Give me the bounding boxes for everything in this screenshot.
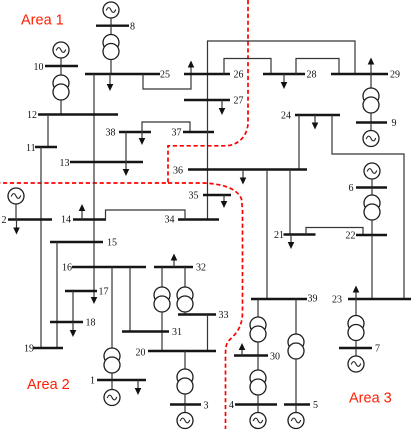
bus 25 [85, 73, 160, 75]
svg-text:Area 1: Area 1 [21, 13, 64, 29]
bus 30 [234, 354, 268, 356]
bus 34 [178, 218, 219, 220]
wire bus 24 to bus 36 [298, 115, 300, 170]
svg-text:7: 7 [375, 344, 380, 355]
wire T1 to bus 1 [111, 373, 113, 380]
wire bus 20 to transformer T3 [184, 351, 186, 369]
load arrow on bus 24 [312, 115, 319, 130]
svg-text:34: 34 [165, 215, 175, 226]
svg-text:33: 33 [219, 310, 229, 321]
svg-text:38: 38 [106, 128, 116, 139]
bus 2 [8, 218, 52, 220]
wire T30 to bus 30 [257, 342, 259, 356]
svg-text:23: 23 [332, 295, 342, 306]
wire bus 11 down to bus 19 [40, 147, 42, 348]
load arrow on bus 28 [281, 74, 288, 89]
generator G1 [104, 390, 120, 406]
svg-text:16: 16 [62, 263, 72, 274]
wire bus 22 to bus 23 [371, 235, 373, 299]
load arrow on bus 36 [240, 170, 247, 185]
transformer T7 [348, 316, 364, 341]
wire bus 36 to bus 21 [289, 170, 291, 235]
svg-text:17: 17 [99, 287, 109, 298]
wire bus 12 to bus 11 [47, 115, 49, 148]
generator G3 [177, 413, 193, 429]
svg-text:13: 13 [60, 158, 70, 169]
svg-text:9: 9 [392, 118, 397, 129]
svg-text:22: 22 [346, 231, 356, 242]
wire bus 28 to bus 29 bracket [296, 59, 339, 75]
svg-text:25: 25 [160, 70, 170, 81]
svg-text:19: 19 [24, 344, 34, 355]
bus 10 [45, 65, 78, 67]
wire T9 to bus 9 [370, 113, 372, 123]
bus 17 [65, 290, 97, 292]
wire G2 to bus 2 [15, 204, 17, 220]
svg-text:Area 3: Area 3 [349, 391, 392, 407]
svg-text:24: 24 [281, 111, 291, 122]
svg-text:39: 39 [308, 294, 318, 305]
wire bus 5 to generator G5 [295, 405, 297, 413]
area boundary Area2/Area3 (red dashed) [168, 183, 243, 429]
svg-text:1: 1 [90, 376, 95, 387]
injection arrow on bus 30 [239, 343, 246, 356]
load arrow on bus 25 [107, 74, 114, 91]
load arrow on bus 27 [219, 100, 226, 115]
wire bus 26 to bus 28 bracket [224, 59, 271, 75]
bus 19 [33, 347, 63, 349]
svg-text:37: 37 [172, 128, 182, 139]
wire G10 to bus 10 [60, 58, 62, 66]
bus 13 [70, 161, 143, 163]
wire bus 32 to transformer T32a [161, 267, 163, 287]
wire G6 to bus 6 [371, 179, 373, 188]
bus 6 [356, 186, 387, 188]
wire bus 10 to transformer T10 [60, 66, 62, 75]
bus 36 [188, 168, 307, 170]
bus 18 [50, 321, 83, 323]
svg-text:6: 6 [349, 183, 354, 194]
bus 32 [154, 266, 193, 268]
svg-text:26: 26 [234, 70, 244, 81]
transformer T1 (bus 16 to bus 1) [104, 348, 120, 373]
wire bus 30 to transformer T4 [257, 356, 259, 371]
wire T32a down to bus 20 [161, 312, 163, 351]
svg-text:14: 14 [61, 215, 71, 226]
transformer T3 [177, 369, 193, 394]
tie line bus 25 to bus 26 with flow arrow [143, 61, 194, 90]
bus 4 [235, 403, 277, 405]
wire T8 to bus 25 [110, 60, 112, 75]
svg-text:Area 2: Area 2 [27, 377, 70, 393]
generator G4 [250, 413, 266, 429]
wire T3 to bus 3 [184, 394, 186, 405]
wire T32b to bus 33 [184, 312, 186, 315]
bus 27 [184, 99, 230, 101]
wire bus 36 to bus 39 [266, 170, 268, 300]
wire T10 to bus 12 [60, 100, 62, 115]
area boundary Area1/Area2 (red dashed) [0, 0, 248, 183]
wire bus 32 to transformer T32b [184, 267, 186, 287]
svg-text:2: 2 [2, 215, 7, 226]
wire T5 to bus 5 [295, 359, 297, 405]
wire bus 23 to transformer T7 [355, 299, 357, 316]
svg-text:4: 4 [229, 400, 234, 411]
bus 1 [97, 379, 146, 381]
transformer T8 [103, 35, 119, 60]
bus 15 [50, 241, 103, 243]
bus 12 [38, 113, 118, 115]
bus 38 [119, 131, 151, 133]
svg-text:3: 3 [204, 401, 209, 412]
wire bus 7 to generator G7 [355, 348, 357, 356]
bus 22 [356, 234, 387, 236]
bus 21 [284, 233, 316, 235]
bus 11 [35, 146, 57, 148]
transformer T6 [364, 195, 380, 220]
svg-text:15: 15 [107, 238, 117, 249]
svg-text:12: 12 [27, 110, 37, 121]
svg-text:10: 10 [34, 62, 44, 73]
svg-text:20: 20 [136, 348, 146, 359]
wire bus 16 to bus 31 [129, 267, 131, 332]
injection arrow on bus 23 [353, 286, 360, 300]
bus 28 [263, 73, 305, 75]
svg-text:32: 32 [196, 263, 206, 274]
bus 35 [203, 194, 231, 196]
generator G5 [288, 413, 304, 429]
wire bus 39 to transformer T5 [295, 299, 297, 334]
wire bus 4 to generator G4 [257, 405, 259, 413]
bus 3 [170, 403, 201, 405]
wire bus 17 to bus 18 [72, 291, 74, 322]
generator G6 [364, 163, 380, 179]
bus 29 [331, 73, 388, 75]
wire bus 29 to transformer T9 [370, 74, 372, 88]
wire bus 8 to transformer T8 [110, 26, 112, 35]
generator G10 [53, 42, 69, 58]
injection arrow on bus 32 [171, 254, 178, 268]
load arrow on bus 38 [139, 132, 146, 145]
load arrow on bus 2 [13, 220, 20, 235]
wire bus 16 to transformer T31a (to bus 1 chain) [111, 267, 113, 348]
wire bus 14 to bus 34 bracket [106, 210, 186, 220]
wire bus 6 to transformer T6 [371, 188, 373, 196]
transformer T5 [288, 334, 304, 359]
wire bus 39 to transformer T30 [257, 299, 259, 317]
load arrow on bus 21 [288, 235, 295, 250]
bus 14 [73, 218, 106, 220]
svg-text:35: 35 [189, 191, 199, 202]
transformer T30 [250, 317, 266, 342]
generator G7 [348, 356, 364, 372]
generator G2 [8, 188, 24, 204]
trunk wire corner to bus 34 (line 26-25 top corridor) [208, 41, 356, 220]
bus 33 [178, 313, 216, 315]
bus 9 [356, 121, 387, 123]
wire bus 21 to bus 22 bracket [306, 228, 363, 236]
injection arrow on bus 29 [368, 58, 375, 75]
wire T4 to bus 4 [257, 395, 259, 405]
wire bus 38 to bus 37 bracket [142, 122, 190, 132]
wire bus 24 to bus 23 (right corridor) [332, 115, 404, 299]
wire bus 38 down through bus 13 with load arrow [123, 132, 130, 176]
wire bus 15 to bus 19 [56, 242, 58, 348]
svg-text:28: 28 [307, 70, 317, 81]
bus 37 [183, 131, 214, 133]
svg-text:5: 5 [313, 400, 318, 411]
wire bus 3 to generator G3 [184, 405, 186, 413]
bus 8 [96, 25, 129, 27]
wire G8 to bus 8 [110, 18, 112, 26]
load arrow on bus 35 [221, 195, 228, 208]
transformer T32a [154, 287, 170, 312]
svg-text:30: 30 [270, 352, 280, 363]
svg-text:11: 11 [26, 143, 36, 154]
load arrow on bus 1 [135, 380, 142, 395]
bus 39 [251, 298, 307, 300]
wire bus 1 to generator G1 [111, 380, 113, 390]
transformer T32b [177, 287, 193, 312]
wire T7 to bus 7 [355, 341, 357, 349]
load arrow on bus 18 [70, 322, 77, 337]
svg-text:8: 8 [130, 22, 135, 33]
backbone wire bus 25 down to bus 17 with load arrow [91, 74, 98, 304]
svg-text:31: 31 [172, 327, 182, 338]
svg-text:36: 36 [173, 166, 183, 177]
bus 5 [284, 403, 310, 405]
svg-text:21: 21 [274, 230, 284, 241]
svg-text:27: 27 [234, 96, 244, 107]
transformer T4 [250, 370, 266, 395]
bus 23 [348, 298, 411, 300]
svg-text:29: 29 [390, 70, 400, 81]
transformer T9 [363, 88, 379, 113]
bus 31 [122, 330, 169, 332]
bus 24 [295, 114, 340, 116]
wire T6 to bus 22 [371, 220, 373, 235]
svg-text:18: 18 [86, 318, 96, 329]
bus 20 [148, 350, 216, 352]
wire bus 9 to generator G9 [370, 123, 372, 131]
generator G9 [363, 131, 379, 147]
bus 26 [184, 73, 230, 75]
bus 16 [72, 266, 146, 268]
generator G8 [103, 2, 119, 18]
bus 7 [339, 347, 372, 349]
injection arrow on bus 14 [79, 204, 86, 220]
wire bus 33 to bus 20 [207, 315, 209, 352]
transformer T10 [53, 75, 69, 100]
